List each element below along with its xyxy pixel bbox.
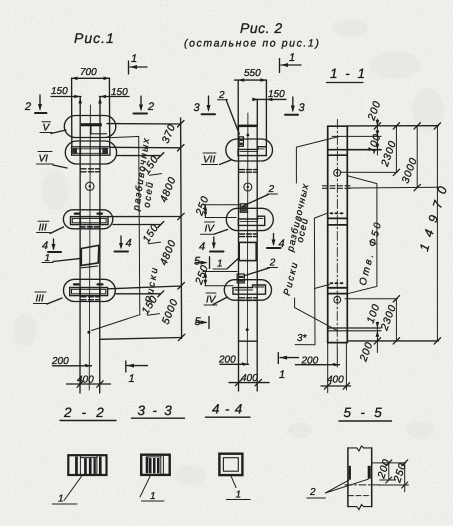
- section 3-3 collar plan: [141, 455, 170, 475]
- dimension 200 bottom-left 1-1: [296, 356, 340, 367]
- section marker 2 right: [134, 96, 155, 114]
- column axis fig2: [246, 113, 249, 365]
- hidden line section 5-5: [349, 495, 372, 497]
- column shaft fig1: [79, 116, 81, 393]
- label 2 with leader fig2 top: [218, 90, 240, 134]
- svg-text:3 - 3: 3 - 3: [138, 403, 174, 418]
- svg-text:3: 3: [194, 102, 201, 114]
- section marker 4 right fig1: [115, 236, 132, 252]
- bottom chain line 1-1: [347, 340, 438, 342]
- dim 2300 top 1-1: [379, 126, 400, 176]
- column side view 1-1: [328, 126, 348, 342]
- axis mark dot fig2 bottom: [246, 328, 249, 331]
- extension lines fig1 top: [71, 78, 73, 146]
- dimension 150 left fig1: [51, 86, 81, 98]
- chain slash ticks fig1: [178, 121, 185, 341]
- svg-text:Рис.1: Рис.1: [74, 30, 115, 46]
- section marker 1 top fig2: [280, 52, 302, 73]
- dim 100 bottom 1-1: [365, 302, 383, 341]
- svg-text:1: 1: [131, 53, 137, 65]
- extension lines fig2 top: [237, 80, 239, 147]
- hole circle lower 1-1: [334, 296, 341, 303]
- collar level 1 lines 1-1: [328, 149, 381, 151]
- small plate mark middle fig2: [240, 204, 247, 213]
- riska mark bottom 1-1 and level lines: [328, 327, 381, 329]
- hidden dashes below capsule III lower: [81, 297, 100, 300]
- svg-text:2: 2: [309, 487, 316, 498]
- dimension 250 lower fig2: [193, 263, 237, 287]
- section marker 3 right fig2: [285, 97, 306, 115]
- lifting hole circle fig1: [86, 182, 94, 190]
- line circle to 2300 chain: [341, 171, 397, 173]
- weld plates section 5-5: [349, 466, 351, 480]
- label III lower: [34, 292, 63, 305]
- extension line plate VI top to chain: [110, 146, 181, 149]
- axis mark dot fig1 bottom: [87, 331, 90, 334]
- label V: [40, 122, 66, 134]
- svg-text:1: 1: [129, 373, 135, 385]
- column top thick bar fig2: [237, 125, 257, 128]
- dimension 150 right fig1: [100, 87, 130, 98]
- svg-text:2: 2: [147, 101, 154, 113]
- dimension chain line fig1: [181, 118, 182, 339]
- rotated dim 150 (III lower): [139, 293, 160, 316]
- svg-text:4 - 4: 4 - 4: [212, 402, 243, 417]
- svg-text:150: 150: [51, 86, 68, 97]
- svg-text:1: 1: [217, 259, 223, 270]
- dim 250 section 5-5: [379, 460, 409, 492]
- svg-text:1: 1: [58, 494, 64, 505]
- dim 2300 bottom 1-1: [378, 299, 399, 341]
- svg-text:5 - 5: 5 - 5: [344, 405, 385, 420]
- collar capsule III lower fig1: [64, 279, 116, 301]
- dim 200 section 5-5: [373, 457, 406, 483]
- collar capsule VI fig1: [65, 141, 116, 164]
- title section 5-5: [339, 405, 392, 421]
- svg-text:550: 550: [244, 68, 261, 79]
- collar level 2 dots 1-1: [331, 212, 343, 214]
- axis dash line section 5-5: [345, 484, 380, 486]
- label III upper: [37, 221, 64, 233]
- svg-text:1: 1: [279, 369, 285, 381]
- collar level 3 dots 1-1: [331, 282, 343, 284]
- section marker 5 lower fig2: [195, 316, 210, 329]
- hole circle upper 1-1: [334, 169, 341, 176]
- line circle lower to chain: [345, 298, 397, 300]
- svg-text:1: 1: [150, 491, 156, 502]
- dim 3000 top 1-1: [400, 126, 421, 191]
- title section 4-4: [206, 402, 251, 418]
- section marker 1 top fig1: [129, 53, 148, 74]
- title section 2-2: [60, 405, 116, 421]
- line level3000 to chain: [347, 186, 438, 189]
- label IV upper: [201, 222, 228, 235]
- small plate mark upper fig2: [239, 137, 243, 147]
- svg-text:2: 2: [24, 101, 31, 113]
- small plate mark lower fig2: [237, 274, 244, 283]
- extension line plate VI bottom short: [117, 155, 161, 157]
- riski leader fig2 to section 1-1 top: [296, 137, 338, 183]
- dimension 700 fig1: [72, 67, 110, 80]
- extension line fig1 bottom to chain: [100, 338, 182, 340]
- dimension 250 upper fig2: [193, 194, 240, 218]
- section 2-2 collar plan: [68, 455, 106, 475]
- svg-text:2: 2: [269, 258, 276, 269]
- svg-text:2: 2: [268, 184, 275, 195]
- hidden dashes below capsule III: [80, 226, 99, 228]
- label VII: [202, 153, 232, 166]
- hidden dashes below capsule IV lower: [240, 298, 258, 301]
- collar level 3 lines 1-1: [328, 287, 348, 289]
- axis dot fig2 top: [246, 134, 249, 137]
- riska mark top 1-1: [332, 135, 381, 137]
- section marker 5 upper fig2: [194, 256, 210, 269]
- svg-text:1: 1: [289, 52, 295, 64]
- svg-text:III: III: [39, 223, 48, 234]
- extension line plate III top to chain: [108, 216, 181, 218]
- column axis 1-1: [336, 120, 338, 349]
- dimension 550 fig2: [235, 68, 267, 82]
- column bottom edge fig2: [239, 340, 258, 342]
- svg-text:VII: VII: [203, 155, 215, 166]
- extension line plate III bottom short: [113, 224, 161, 226]
- svg-text:700: 700: [80, 67, 97, 78]
- section 5-5 column strip: [348, 446, 372, 510]
- svg-text:3: 3: [299, 102, 306, 114]
- timber packing piece 1 fig1: [81, 245, 99, 267]
- dimension 400 fig2 bottom: [229, 373, 269, 386]
- rotated dim 150 (III upper): [140, 222, 161, 245]
- section marker 3 left fig2: [194, 96, 216, 114]
- hidden dashes below capsule VII: [240, 170, 258, 173]
- label 2 lower with leader fig2: [245, 258, 278, 276]
- label 2 upper with leader fig2: [244, 184, 278, 206]
- collar capsule VII fig2: [226, 139, 273, 161]
- svg-text:3*: 3*: [297, 333, 308, 344]
- column shaft fig2: [238, 127, 240, 391]
- svg-text:1 - 1: 1 - 1: [330, 66, 367, 81]
- dimension 400 fig1 bottom: [67, 375, 111, 388]
- svg-text:4: 4: [126, 238, 132, 250]
- collar level 2 lines 1-1: [328, 217, 348, 219]
- label IV lower: [204, 293, 227, 306]
- label 1 for packing fig2: [213, 258, 239, 270]
- section marker 4 left fig2: [199, 237, 224, 253]
- dimension 200 fig1 bottom: [51, 356, 92, 367]
- riski leader fig2 to section 1-1 bottom: [295, 298, 337, 330]
- section 4-4 collar plan: [219, 454, 242, 475]
- hole hidden lines upper 1-1: [323, 185, 353, 187]
- section marker 4 right fig2: [267, 234, 285, 251]
- svg-text:IV: IV: [205, 224, 216, 235]
- svg-text:VI: VI: [39, 154, 49, 165]
- leader loop for hole note: [347, 176, 377, 294]
- section marker 1 bottom fig2: [278, 353, 298, 382]
- extension line capsule V to chain: [107, 123, 181, 125]
- svg-text:4: 4: [42, 240, 48, 252]
- svg-text:1: 1: [236, 490, 242, 501]
- lifting hole circle fig2: [244, 183, 252, 191]
- dimension 400 bottom-left 1-1: [321, 375, 351, 390]
- dim 14970 1-1: [417, 126, 452, 341]
- extension verticals below column 1-1: [327, 343, 329, 393]
- label 1 for packing: [42, 253, 79, 264]
- dim 200 top 1-1: [365, 99, 383, 136]
- section marker 4 left fig1: [42, 239, 61, 252]
- riski leader line fig1: [92, 136, 140, 330]
- hidden dashes below capsule VI: [81, 169, 100, 172]
- label VI: [37, 152, 68, 169]
- dimension 150 fig2: [252, 89, 286, 101]
- label 1 section 3-3: [140, 476, 164, 502]
- top chain line 1-1: [348, 125, 439, 127]
- label 2 section 5-5: [307, 479, 368, 498]
- column axis fig1: [89, 105, 90, 390]
- svg-text:(остальное по рис.1): (остальное по рис.1): [184, 38, 320, 50]
- label 1 section 2-2: [52, 476, 81, 504]
- label 3* with leader 1-1: [295, 213, 329, 344]
- title section 3-3: [132, 403, 185, 418]
- rotated dim 150 (VI): [140, 153, 161, 176]
- svg-text:Рис. 2: Рис. 2: [240, 20, 283, 36]
- dimension 200 fig2 bottom: [218, 355, 249, 366]
- extension line plate III lower top to chain: [108, 286, 181, 289]
- dim 100 top 1-1: [366, 132, 384, 155]
- hidden dashes below capsule IV upper: [240, 234, 258, 237]
- section marker 2 left: [24, 95, 47, 113]
- dim 200 bottom 1-1: [357, 340, 377, 364]
- collar capsule V fig1: [64, 116, 116, 138]
- extension line plate III lower bottom short: [116, 293, 161, 295]
- svg-text:4: 4: [199, 241, 205, 253]
- svg-text:2 - 2: 2 - 2: [63, 405, 107, 420]
- svg-text:III: III: [36, 294, 45, 305]
- section marker 1 bottom fig1: [126, 361, 148, 385]
- collar capsule III upper fig1: [63, 210, 112, 229]
- collar capsule IV upper fig2: [226, 208, 273, 230]
- label 1 section 4-4: [226, 476, 250, 501]
- timber packing piece fig2: [239, 242, 256, 260]
- collar capsule IV lower fig2: [224, 280, 271, 301]
